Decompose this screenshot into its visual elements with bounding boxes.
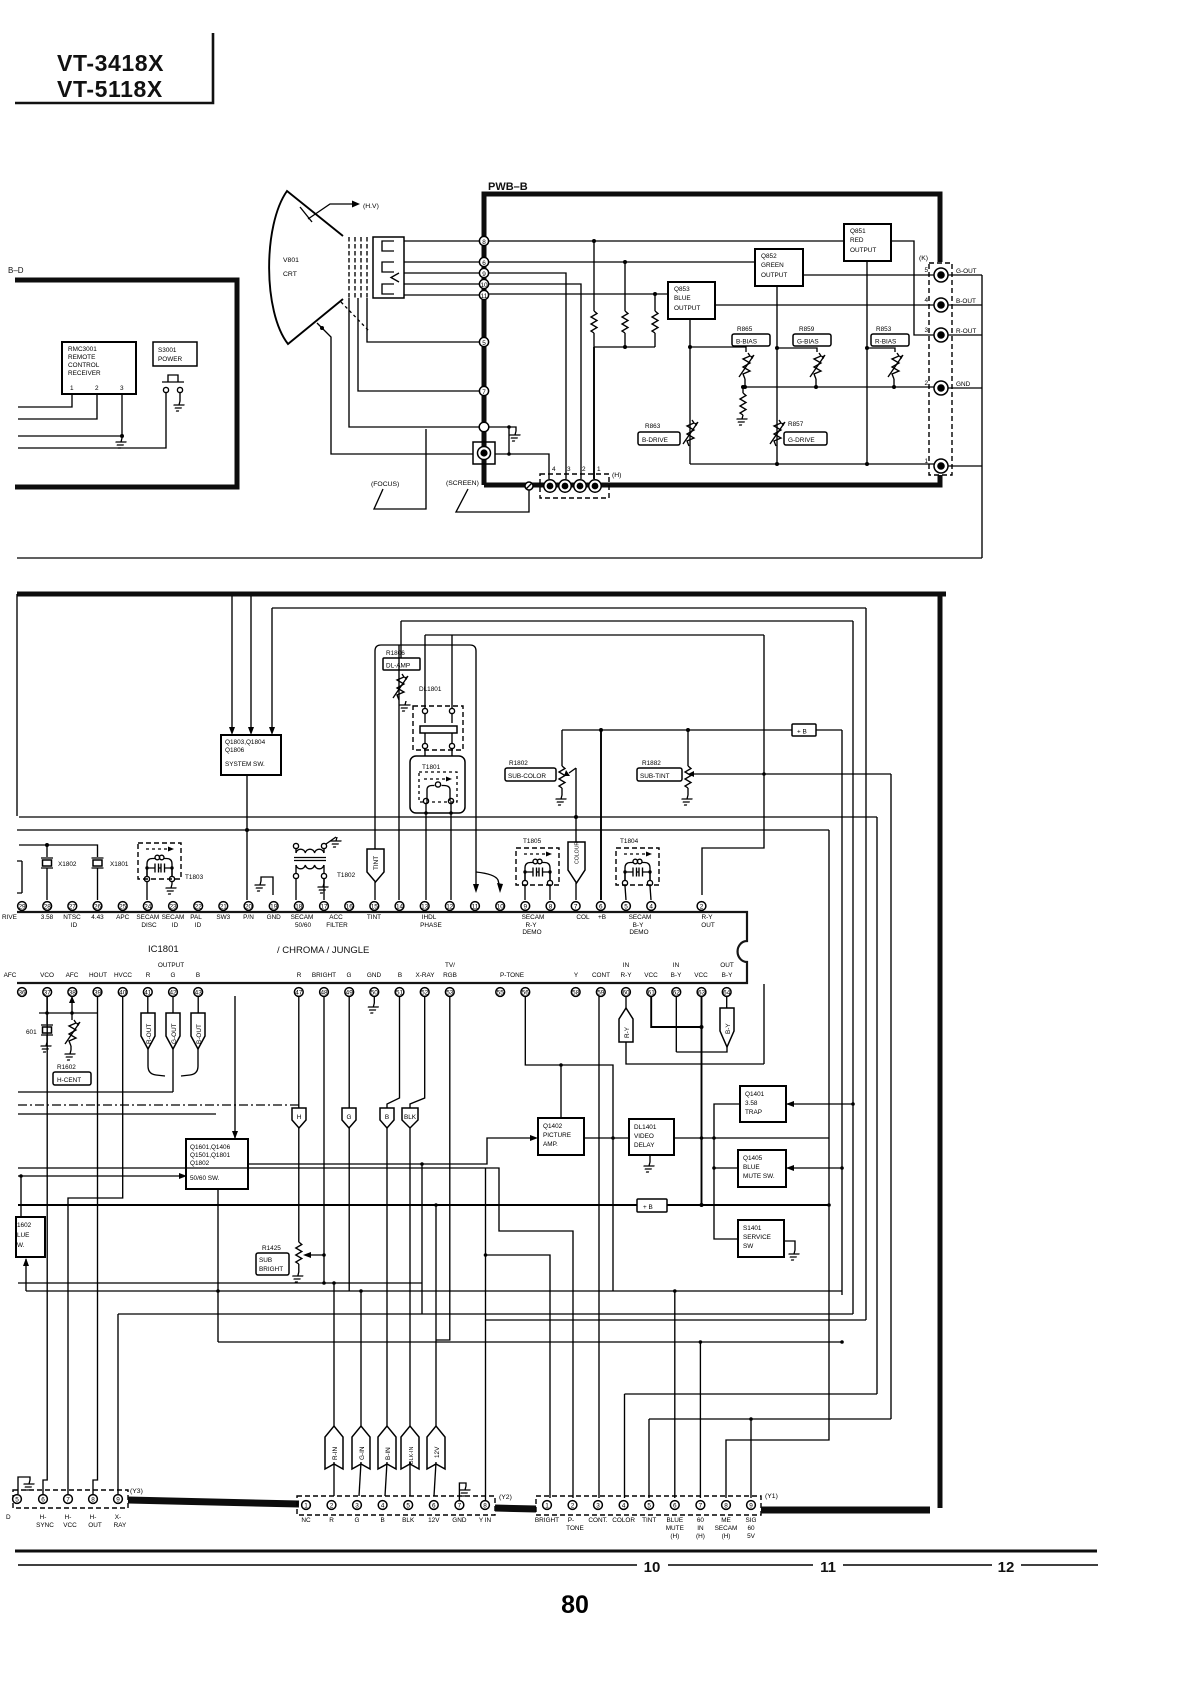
pin 14 [395, 902, 404, 911]
svg-text:G-IN: G-IN [359, 1446, 366, 1460]
svg-text:OUTPUT: OUTPUT [761, 272, 787, 279]
svg-text:SUB-TINT: SUB-TINT [640, 773, 670, 780]
node G bias tap [775, 346, 779, 350]
svg-text:DISC: DISC [141, 922, 157, 929]
svg-text:4: 4 [622, 1503, 626, 1510]
svg-text:OUT: OUT [720, 962, 734, 969]
wire T1803 to pin24 [146, 882, 148, 900]
GND rail to K pin2 [745, 386, 934, 388]
svg-text:COL: COL [576, 914, 590, 921]
svg-text:6: 6 [432, 1503, 436, 1510]
resistor on pin11 net [654, 294, 656, 311]
svg-text:X1801: X1801 [110, 861, 129, 868]
svg-text:CRT: CRT [283, 271, 297, 278]
svg-text:POWER: POWER [158, 356, 183, 363]
svg-text:Q851: Q851 [850, 228, 866, 235]
pin 23 [169, 902, 178, 911]
transformer T1803 [138, 843, 181, 882]
svg-text:50/60 SW.: 50/60 SW. [190, 1175, 220, 1182]
svg-text:IC1801: IC1801 [148, 944, 179, 955]
svg-text:SW: SW [743, 1243, 754, 1250]
svg-text:36: 36 [18, 990, 26, 997]
svg-text:R853: R853 [876, 326, 892, 333]
lower board left edge [16, 594, 18, 816]
svg-text:OUTPUT: OUTPUT [850, 247, 876, 254]
flag BLK [402, 996, 425, 1128]
svg-text:SYNC: SYNC [36, 1522, 54, 1529]
node +B at pin6 riser [599, 728, 603, 732]
svg-text:VIDEO: VIDEO [634, 1133, 654, 1140]
svg-text:G-DRIVE: G-DRIVE [788, 437, 815, 444]
CRT socket pin 11 [479, 290, 488, 299]
wire T1802 to pin18 [295, 879, 297, 900]
wire line B [17, 829, 829, 831]
transformer T1802 [293, 843, 326, 878]
svg-text:R-IN: R-IN [332, 1446, 339, 1460]
svg-text:11: 11 [472, 904, 479, 911]
K bus vertical [981, 275, 983, 558]
svg-text:R1802: R1802 [509, 760, 528, 767]
svg-text:R1425: R1425 [262, 1245, 281, 1252]
wire Q852 collector to G-OUT [803, 274, 934, 276]
ground T1802 bottom [323, 879, 325, 883]
Y1 pin labels [535, 1517, 757, 1540]
wire 50/60 feed top [234, 996, 236, 1139]
wire hA drop into system sw [271, 608, 273, 732]
flag B-Y at pin64 [720, 996, 734, 1047]
K contact 3 [934, 328, 948, 342]
flag TINT [367, 849, 384, 882]
pin 24 [143, 902, 152, 911]
wire R1882 wiper to margin [694, 773, 891, 775]
Y3 contact 8 [89, 1495, 98, 1504]
SUB BRIGHT boxed label [256, 1253, 289, 1275]
svg-text:HVCC: HVCC [114, 972, 132, 979]
svg-text:(H): (H) [670, 1533, 679, 1540]
svg-text:BLK-IN: BLK-IN [409, 1447, 415, 1464]
wire RGB-OUT merge [148, 1049, 198, 1092]
svg-text:5: 5 [924, 267, 928, 274]
K contact 1 [934, 459, 948, 473]
svg-text:R857: R857 [788, 421, 804, 428]
svg-text:7: 7 [66, 1497, 70, 1504]
svg-text:601: 601 [26, 1029, 37, 1036]
wire margin v6 [890, 774, 892, 1419]
svg-text:SUB-COLOR: SUB-COLOR [508, 773, 546, 780]
transistor Q852 green output [755, 249, 803, 286]
svg-text:B-Y: B-Y [671, 972, 682, 979]
svg-text:PAL: PAL [190, 914, 202, 921]
pin 61 [647, 988, 656, 997]
FOCUS callout line [374, 429, 426, 509]
wire Q851 collector to R-OUT [891, 241, 934, 335]
svg-text:TINT: TINT [373, 856, 380, 870]
svg-text:1: 1 [545, 1503, 549, 1510]
wire TINT to pin15 [374, 882, 376, 900]
svg-text:3: 3 [355, 1503, 359, 1510]
pin 17 [320, 902, 329, 911]
svg-text:G: G [171, 972, 176, 979]
wire Q1602 arrow from below [25, 1259, 27, 1291]
svg-text:IN: IN [697, 1525, 704, 1532]
svg-text:60: 60 [697, 1517, 705, 1524]
Y1 contact 6 [670, 1501, 679, 1510]
svg-text:GND: GND [452, 1517, 467, 1524]
svg-text:(H): (H) [612, 472, 621, 479]
svg-text:64: 64 [723, 990, 731, 997]
wire Y3 pin7 riser [68, 996, 123, 1494]
svg-text:+B: +B [598, 914, 606, 921]
Y1 contact 8 [722, 1501, 731, 1510]
svg-text:SUB: SUB [259, 1257, 272, 1264]
IC Q1803,Q1804,Q1806 system switch [221, 735, 281, 775]
svg-text:41: 41 [144, 990, 152, 997]
svg-text:9: 9 [116, 1497, 120, 1504]
aquadag dashed edge [341, 302, 369, 331]
pin 38 [68, 988, 77, 997]
pin 15 [370, 902, 379, 911]
transistor Q851 red output [844, 224, 891, 261]
Y1 contact 7 [696, 1501, 705, 1510]
ground below R1882 [680, 795, 693, 805]
svg-text:ID: ID [71, 922, 78, 929]
svg-text:RIVE: RIVE [2, 914, 17, 921]
pin 6 [596, 902, 605, 911]
pin 59 [596, 988, 605, 997]
svg-text:TV/: TV/ [445, 962, 455, 969]
svg-text:19: 19 [270, 904, 278, 911]
svg-text:IN: IN [623, 962, 630, 969]
svg-text:H-: H- [65, 1514, 72, 1521]
svg-text:TRAP: TRAP [745, 1109, 762, 1116]
potentiometer R863 B-DRIVE [683, 420, 698, 446]
wire Q853 emitter [689, 319, 691, 464]
svg-text:Q1501,Q1801: Q1501,Q1801 [190, 1152, 231, 1159]
CRT socket pin 6 [479, 257, 488, 266]
svg-text:R-Y: R-Y [701, 914, 713, 921]
svg-text:BRIGHT: BRIGHT [312, 972, 336, 979]
svg-text:7: 7 [482, 389, 486, 396]
svg-text:51: 51 [396, 990, 404, 997]
H contact 3 [559, 480, 571, 492]
Y1 contact 3 [594, 1501, 603, 1510]
svg-text:R1806: R1806 [386, 650, 405, 657]
svg-text:X1802: X1802 [58, 861, 77, 868]
svg-text:R-Y: R-Y [525, 922, 537, 929]
svg-text:OUTPUT: OUTPUT [158, 962, 184, 969]
svg-text:GREEN: GREEN [761, 262, 784, 269]
svg-text:9: 9 [524, 904, 528, 911]
svg-text:17: 17 [320, 904, 328, 911]
svg-text:4: 4 [381, 1503, 385, 1510]
wire CRT pin8 [404, 240, 479, 242]
svg-text:38: 38 [69, 990, 77, 997]
pin 53 [445, 988, 454, 997]
aquadag wire [317, 323, 473, 454]
node T1801 left exit [424, 811, 428, 815]
svg-text:RMC3001: RMC3001 [68, 346, 97, 353]
harness bar Y2-Y1 [495, 1508, 536, 1509]
frame wire across page [17, 557, 982, 559]
svg-text:G-OUT: G-OUT [171, 1023, 178, 1044]
trap Q1401 3.58 [740, 1086, 786, 1122]
SUB-TINT boxed label [637, 768, 682, 781]
pin 19 [269, 902, 278, 911]
svg-text:SYSTEM SW.: SYSTEM SW. [225, 761, 265, 768]
wire mesh left h3 [18, 1113, 216, 1115]
svg-text:S1401: S1401 [743, 1225, 762, 1232]
wire line A [19, 816, 877, 818]
svg-text:BLUE: BLUE [674, 295, 691, 302]
crystal X1801 [92, 858, 104, 900]
Y2 contact 7 [455, 1501, 464, 1510]
svg-text:50/60: 50/60 [295, 922, 311, 929]
lower board top edge [17, 592, 946, 597]
wire Y1 pin3 riser [598, 996, 600, 1498]
node G2 tap [507, 425, 511, 429]
svg-text:29: 29 [18, 904, 26, 911]
svg-text:55: 55 [497, 990, 505, 997]
wire COLOR net [625, 1393, 878, 1395]
svg-text:RGB: RGB [443, 972, 457, 979]
svg-text:6: 6 [41, 1497, 45, 1504]
svg-text:DELAY: DELAY [634, 1142, 655, 1149]
aquadag node [320, 326, 324, 330]
svg-text:(H): (H) [722, 1533, 731, 1540]
connector H dashed box [540, 474, 609, 498]
wire Y2 Y-IN riser [485, 1168, 487, 1500]
svg-text:W.: W. [17, 1242, 25, 1249]
wire pin8 to Q851 [489, 240, 844, 242]
svg-text:R-Y: R-Y [620, 972, 632, 979]
wire COLOUR to pin7 [575, 883, 577, 900]
ground below R1802 [554, 795, 567, 805]
pin 2 [697, 902, 706, 911]
svg-text:8: 8 [482, 239, 486, 246]
wire pin63 +B feed [701, 996, 703, 1205]
wire CRT pin11 [404, 294, 479, 296]
svg-text:37: 37 [44, 990, 52, 997]
Y2 contact 8 [481, 1501, 490, 1510]
svg-text:Q1802: Q1802 [190, 1160, 210, 1167]
node T1801 right exit [449, 811, 453, 815]
B-DRIVE boxed label [638, 432, 680, 445]
svg-text:P/N: P/N [243, 914, 254, 921]
wire margin v4 [865, 608, 867, 1320]
svg-text:16: 16 [346, 904, 354, 911]
wire pins 37-38 tie [39, 1012, 97, 1014]
wire pin56 to Q1402 top [525, 996, 613, 1291]
ground at Y2 pin7 [459, 1483, 466, 1500]
electron gun 3 [382, 284, 394, 294]
svg-text:SECAM: SECAM [522, 914, 545, 921]
svg-text:PICTURE: PICTURE [543, 1132, 571, 1139]
pin 56 [521, 988, 530, 997]
wire RMC pin2 [18, 394, 97, 419]
pin 9 [521, 902, 530, 911]
svg-text:+ B: + B [797, 729, 807, 736]
node B bias tap [688, 345, 692, 349]
svg-text:VT-3418X: VT-3418X [57, 50, 164, 76]
svg-text:B-OUT: B-OUT [956, 298, 976, 305]
svg-text:8: 8 [91, 1497, 95, 1504]
wire Y3 pin8 riser [93, 996, 98, 1494]
svg-text:4: 4 [924, 297, 928, 304]
wire Y1 pin7 riser [699, 1342, 701, 1498]
svg-text:(K): (K) [919, 255, 928, 262]
pin 39 [93, 988, 102, 997]
node R on pin6 wire [623, 260, 627, 264]
bottom rule thick [15, 1550, 1097, 1553]
wire VCC tie pins 61-63 [651, 996, 701, 1027]
node R on pin8 wire [592, 239, 596, 243]
Y2 contact 5 [404, 1501, 413, 1510]
svg-text:Y: Y [574, 972, 579, 979]
HV callout arrow [308, 204, 352, 219]
resistor on pin8 net [593, 241, 595, 311]
bottom rule thin with grid numbers [18, 1564, 1098, 1566]
svg-text:V801: V801 [283, 257, 299, 264]
svg-text:SECAM: SECAM [629, 914, 652, 921]
svg-text:RED: RED [850, 237, 864, 244]
B-BIAS boxed label [732, 334, 770, 346]
svg-text:12V: 12V [428, 1517, 440, 1524]
wire G to G-IN [348, 1128, 350, 1291]
H-CENT boxed label [53, 1072, 91, 1085]
svg-text:1: 1 [70, 385, 74, 392]
flag B-OUT [191, 996, 205, 1049]
potentiometer R1806 [393, 674, 408, 700]
svg-text:20: 20 [245, 904, 253, 911]
svg-text:22: 22 [195, 904, 203, 911]
Y3 contact 9 [114, 1495, 123, 1504]
svg-text:DL1801: DL1801 [419, 686, 442, 693]
pin 64 [722, 988, 731, 997]
transistor Q1402 picture amp [538, 1118, 584, 1155]
pin 41 [143, 988, 152, 997]
svg-text:RAY: RAY [114, 1522, 127, 1529]
ground DL1401 [649, 1155, 651, 1162]
wire T1801 to pin13 [425, 804, 427, 900]
svg-text:CONTROL: CONTROL [68, 362, 100, 369]
wire Y3 pin9 riser [117, 1314, 119, 1494]
G2 open circle [479, 422, 489, 432]
ground R1425 [291, 1272, 304, 1282]
pin 26 [93, 902, 102, 911]
flag COLOUR [568, 842, 585, 883]
IC RMC3001 remote control receiver [62, 342, 136, 394]
svg-text:B-IN: B-IN [385, 1447, 392, 1460]
svg-text:8: 8 [483, 1503, 487, 1510]
wire pin14 riser [398, 645, 400, 900]
svg-text:4.43: 4.43 [91, 914, 104, 921]
wire Q1401 left [714, 1104, 740, 1138]
wire to B-BIAS pot [690, 347, 746, 352]
wire pin38 stub [71, 996, 73, 1020]
wire Y1 pin9 riser [750, 1419, 752, 1498]
transformer T1801 [410, 756, 465, 813]
ground at pin19 [261, 877, 273, 895]
pin 58 [571, 988, 580, 997]
svg-text:R1602: R1602 [57, 1064, 76, 1071]
wire DL1801 top stubs [425, 635, 452, 708]
svg-text:B-Y: B-Y [633, 922, 644, 929]
+B boxed label lower [637, 1199, 667, 1212]
svg-text:R863: R863 [645, 423, 661, 430]
wire margin v3 [852, 621, 854, 1314]
focus connector contact [478, 447, 491, 460]
svg-text:VCC: VCC [644, 972, 658, 979]
IC1801 top pin 29 [18, 902, 27, 911]
svg-text:CONT: CONT [592, 972, 610, 979]
K bus wires to right [948, 275, 982, 466]
svg-text:60: 60 [747, 1525, 755, 1532]
svg-text:11: 11 [481, 293, 488, 300]
pin 12 [445, 902, 454, 911]
G-DRIVE boxed label [784, 432, 827, 445]
svg-text:59: 59 [597, 990, 605, 997]
Y2 contact 4 [378, 1501, 387, 1510]
wire T1805 to pin9 [524, 886, 526, 900]
svg-text:SIG: SIG [745, 1517, 756, 1524]
wire Y1 pin2 riser staircase [18, 1168, 573, 1498]
svg-text:11: 11 [820, 1559, 836, 1576]
svg-text:7: 7 [458, 1503, 462, 1510]
svg-text:R-OUT: R-OUT [146, 1024, 153, 1044]
wire CRT pin5 [367, 298, 479, 342]
svg-text:BLK: BLK [404, 1114, 417, 1121]
pin 18 [294, 902, 303, 911]
svg-text:AFC: AFC [66, 972, 79, 979]
node RMC pin3 junction [120, 434, 124, 438]
wire T1804 to pin4 [650, 886, 651, 900]
wire to R-BIAS pot [867, 348, 895, 352]
svg-text:R1882: R1882 [642, 760, 661, 767]
G-BIAS boxed label [793, 334, 831, 346]
svg-text:5V: 5V [747, 1533, 756, 1540]
pin 8 [546, 902, 555, 911]
svg-text:G: G [347, 972, 352, 979]
svg-text:SERVICE: SERVICE [743, 1234, 771, 1241]
wire CRT pin10 [404, 283, 479, 285]
svg-text:25: 25 [119, 904, 127, 911]
potentiometer AFC [65, 1020, 80, 1046]
svg-text:H-CENT: H-CENT [57, 1077, 81, 1084]
svg-text:VT-5118X: VT-5118X [57, 76, 163, 102]
svg-text:56: 56 [522, 990, 530, 997]
node +B at R1882 [686, 728, 690, 732]
svg-text:S3001: S3001 [158, 347, 177, 354]
Y1 contact 1 [543, 1501, 552, 1510]
svg-text:(Y2): (Y2) [499, 1494, 512, 1501]
svg-text:VCC: VCC [63, 1522, 77, 1529]
svg-text:PHASE: PHASE [420, 922, 442, 929]
wire Y-IN net [486, 1319, 867, 1321]
svg-text:2: 2 [924, 380, 928, 387]
svg-text:VCO: VCO [40, 972, 54, 979]
flag B [380, 996, 400, 1128]
H contact 4 [544, 480, 556, 492]
Y1 contact 4 [619, 1501, 628, 1510]
svg-text:B: B [196, 972, 200, 979]
pin 60 [622, 988, 631, 997]
svg-text:B-OUT: B-OUT [196, 1024, 203, 1044]
CRT socket pin 7 [479, 386, 488, 395]
Y2 pin labels [301, 1517, 491, 1524]
delay line DL1401 video delay [629, 1119, 674, 1155]
wire margin v1 to Y1 pin8 [726, 1205, 829, 1498]
svg-text:40: 40 [119, 990, 127, 997]
